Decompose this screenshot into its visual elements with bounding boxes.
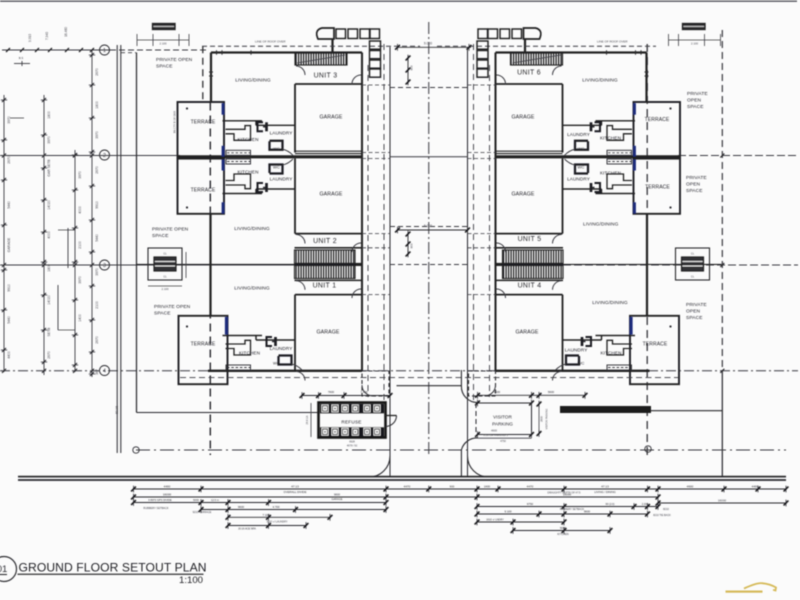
right unit2 door arc e [497,243,506,252]
parking bay left dashed [475,403,477,435]
svg-text:16.460: 16.460 [64,27,68,37]
base dim right tick 585 [583,392,588,399]
right paver col 1 [477,41,488,49]
west fence return [137,412,319,414]
right top cl tick 153 [704,34,706,46]
svg-text:SPACE: SPACE [686,188,703,194]
driveway vdim bot [407,232,409,256]
sdim row4L tick 386 [384,506,389,513]
left unit1 laundry west wall [255,336,257,341]
driveway group [180,42,678,478]
right west wall mid [646,214,648,316]
driveway cross dash 4 [390,264,468,266]
right unit2 kitchen top wall [596,193,636,195]
unit1 laundry appliance a [586,337,592,346]
dim slash at x4 y140 [2,138,6,142]
sdim row3R line [477,506,658,508]
svg-text:2.000: 2.000 [642,502,649,506]
svg-text:GARAGE: GARAGE [7,237,11,252]
svg-text:3970: 3970 [47,136,51,144]
right terrace1 dot [669,107,671,109]
sdim row1 tick 647.5 [645,486,650,493]
svg-text:9.000: 9.000 [424,224,432,228]
svg-text:3970: 3970 [7,116,11,124]
left paver col 2 [370,51,381,59]
svg-text:5000: 5000 [560,526,566,530]
svg-text:GARAGE: GARAGE [511,192,534,198]
sdim row2 tick 477 [475,494,480,501]
right unit3 stair diagonal [513,55,561,63]
svg-text:3970: 3970 [95,268,99,276]
sdim row3L tick 386 [384,499,389,506]
kerb flare east [468,456,489,477]
left terrace3 blue [225,317,228,335]
right unit1 kitchen top wall [596,335,636,337]
left unit2 door arc w [296,235,305,244]
svg-text:47.13: 47.13 [601,484,609,488]
unit3 wc walls [575,141,588,150]
svg-text:SPACE: SPACE [152,233,169,239]
right top cl bar split [684,25,705,27]
svg-text:4000: 4000 [78,206,82,214]
right terrace1 [634,102,681,158]
right porch wall [524,39,526,53]
svg-text:5600: 5600 [548,390,555,394]
svg-text:WC: WC [578,165,585,170]
unit3 kitchen counter [607,126,632,141]
svg-text:OVERALL DIVIDE: OVERALL DIVIDE [284,490,307,494]
dim tick at x92 y55 [89,54,95,56]
unit3 bench dash [227,152,250,154]
strip rung c [10,117,24,119]
svg-text:TERRACE: TERRACE [643,342,668,348]
logo swoosh [744,583,776,590]
east fence return [651,410,722,412]
left terrace1 blue N [222,103,225,115]
svg-text:2100: 2100 [78,241,82,249]
sdim row4Rb line [564,513,648,515]
unit1 wc walls [566,356,579,365]
svg-text:GAR SETB: GAR SETB [47,159,51,177]
left unit1 stairs flight [295,266,356,279]
right unit1 stairs flight [503,266,564,279]
sdim row3R tick 634 [632,503,637,510]
sdim row5L tick 268.5 [266,514,271,521]
sdim row2b line [658,502,786,504]
right top clothesline bar [683,24,706,30]
svg-text:LAUNDRY: LAUNDRY [567,132,590,137]
svg-text:TERRACE: TERRACE [645,117,670,123]
garage apron stub west y152.5 [362,152,390,154]
driveway dim bot tick e [465,227,470,234]
grid line 1 dash [110,49,209,51]
unit2 bench dash [608,161,631,163]
sdim row4R tick 539 [537,511,542,518]
dim slash at x44 y168 [42,166,46,170]
jamb L1 [216,50,218,54]
svg-text:4.700: 4.700 [273,505,280,509]
site boundary group [0,1,797,480]
refuse group [319,403,397,438]
left top cl tick 189 [188,34,190,46]
base dim left tick 318.5 [316,392,321,399]
right garage1 top wall [496,83,563,85]
left unit2 laundry west wall [255,189,257,194]
fence dash stub [121,52,136,54]
svg-text:GARAGE: GARAGE [316,330,339,336]
dim slash at x92 y352 [90,350,94,354]
svg-text:367: 367 [95,369,99,375]
svg-text:OPEN: OPEN [686,309,701,315]
refuse fence line east [397,385,462,387]
garage apron stub west y233.6 [362,233,390,235]
svg-text:TERRACE: TERRACE [191,188,216,194]
svg-text:9.000: 9.000 [424,42,432,46]
svg-text:-: - [0,576,3,585]
refuse bin top 6 [374,405,381,413]
right unit2 stairs flight [503,250,564,264]
sdim row6R tick 513 [511,527,516,534]
dim slash at x44 y232 [42,230,46,234]
svg-text:SPACE: SPACE [686,315,703,321]
svg-text:1:100: 1:100 [179,575,203,586]
garage apron stub west y158.5 [362,158,390,160]
visitor parking dim line [478,437,532,439]
dim slash at x75 y190 [73,188,77,192]
right unit3 laundry top wall [563,124,602,126]
kerb flare west [369,456,390,477]
sdim row6L tick 268.5 [266,522,271,529]
sdim row4R line [477,513,564,515]
right unit3 laundry west wall [601,121,603,126]
svg-text:LIVING / DINING: LIVING / DINING [594,490,615,494]
corner sub tick [21,61,23,66]
right unit2 door arc w [553,235,562,244]
svg-text:SPACE: SPACE [156,64,173,70]
sdim row6L line [228,525,306,527]
svg-text:5440: 5440 [95,234,99,242]
grid strip slash 44,370.8 [42,369,46,373]
dim tick at x75 y228 [72,227,78,229]
dim tick at x92 y286 [89,285,95,287]
svg-text:TERRACE: TERRACE [191,120,216,126]
svg-text:KITCHEN: KITCHEN [557,532,569,536]
left top cl tick 179 [178,34,180,46]
sdim row1 tick 477 [475,486,480,493]
svg-text:900: 900 [410,243,414,248]
grid1 strip slash x37 [35,48,39,52]
right unit2 laundry west wall [601,189,603,194]
left unit2 door arc e [352,243,361,252]
unit1 kitchen bench [607,365,632,370]
right paver curve [524,28,541,39]
east boundary solid [721,370,723,477]
unit1 laundry appliance b [274,337,277,346]
svg-text:9.910: 9.910 [28,34,32,42]
refuse bin bottom 2 [332,428,339,436]
sdim row1 line [134,488,787,490]
left paver curve [317,28,334,39]
dim tick at x92 y374 [89,373,95,375]
dim slash at x92 y252 [90,250,94,254]
svg-text:SETB: SETB [47,327,51,337]
dim tick at x75 y335 [72,334,78,336]
svg-text:7.100: 7.100 [263,513,270,517]
grid line 2 right ext [678,155,798,157]
svg-text:2600: 2600 [540,416,544,422]
svg-text:PRIVATE OPEN: PRIVATE OPEN [152,227,189,233]
left paver col 4 [370,69,381,77]
right terrace3 [630,316,679,384]
svg-text:1: 1 [103,48,106,54]
right terrace3 dot [669,325,671,327]
right south wall [496,370,650,372]
refuse top band [320,404,384,414]
svg-text:KITCHEN: KITCHEN [237,137,258,142]
parking bottom tick w [475,431,480,438]
strip vertical line D [91,50,93,377]
left paver row 4 [370,29,380,39]
dim slash at x92 y85 [90,83,94,87]
svg-text:GROUND FLOOR SETOUT PLAN: GROUND FLOOR SETOUT PLAN [19,561,207,575]
left unit3 stair diagonal [297,55,345,63]
sdim row1 tick 758 [756,486,761,493]
left garage1 west wall [294,84,296,153]
right paver row 4 [478,29,488,39]
svg-text:WC: WC [273,165,280,170]
unit3 kitchen counter [226,126,251,141]
svg-text:4600: 4600 [491,428,497,432]
left unit3 door arc w [296,66,305,75]
svg-text:4470: 4470 [527,485,534,489]
clotheslines group [137,24,721,292]
svg-text:1400: 1400 [78,314,82,322]
left top cl bar split [154,25,175,27]
left terrace1 dot [186,107,188,109]
right terrace2 [634,159,681,214]
sdim row4R tick 477 [475,511,480,518]
unit2 kitchen bench [226,159,251,164]
dim tick at x92 y252 [89,251,95,253]
svg-text:12.0 m: 12.0 m [211,498,219,502]
dim slash at x92 y220 [90,218,94,222]
svg-text:16000: 16000 [163,493,172,497]
dim tick at x44 y100 [41,99,47,101]
garage apron stub west y371 [362,370,390,372]
parking kerb line lower [460,450,462,477]
left garage1 top wall [295,83,362,85]
driveway edge west [389,47,391,477]
svg-text:KITCHEN: KITCHEN [600,136,621,141]
grid line 3 left ext [0,264,295,266]
svg-text:7600: 7600 [328,390,335,394]
grid group [0,45,798,376]
left unit3 stairs [295,53,347,65]
sdim row4R tick 564 [562,511,567,518]
west long dashed upper [202,46,204,102]
svg-text:VISITOR PARKING 5: VISITOR PARKING 5 [483,433,508,437]
dim slash at x44 y295 [42,293,46,297]
sdim row6R line [513,530,610,532]
left building walls group [136,39,389,396]
parking side tick s [537,430,542,437]
dim slash at x75 y228 [73,226,77,230]
right terrace2 dot [669,206,671,208]
sdim row5R tick 513 [511,519,516,526]
refuse bin bottom 1 [322,428,329,436]
svg-text:OPEN: OPEN [687,98,702,104]
grid line 2 left ext [0,155,180,157]
right unit3 door arc e [497,75,506,84]
logo bar [726,591,763,593]
left terrace1 [178,102,225,158]
roof dash left [202,45,420,47]
left unit2 kitchen top wall [223,193,263,195]
jamb L3 [221,50,223,54]
west fence line [136,53,138,413]
dim slash at x92 y55 [90,53,94,57]
refuse bottom band [320,427,384,437]
right party wall unit3 [496,155,681,158]
svg-text:9600: 9600 [584,510,591,514]
svg-text:CL: CL [691,275,695,279]
svg-text:LIVING/DINING: LIVING/DINING [234,226,270,232]
grid1 strip slash x22 [20,48,24,52]
driveway vdim top tick b [406,67,411,74]
sdim row2 tick 386 [384,494,389,501]
left unit3 laundry west wall [255,121,257,126]
svg-text:CL: CL [163,252,167,256]
sdim row5R tick 564 [562,519,567,526]
svg-text:PRIVATE OPEN: PRIVATE OPEN [154,304,191,310]
dim tick at x75 y300 [72,299,78,301]
title bubble divider [0,574,7,576]
svg-text:LIVING/DINING: LIVING/DINING [592,300,628,306]
dim slash at x44 y100 [42,98,46,102]
dim tick at x75 y262 [72,261,78,263]
svg-text:PRIVATE OPEN: PRIVATE OPEN [156,57,193,63]
driveway vdim bot tick c [406,251,411,258]
left margin dimension strip group [1,27,177,414]
sdim row5R line [477,521,564,523]
unit3 laundry appliance c [591,126,595,128]
dim tick at x44 y362 [41,361,47,363]
dim slash at x4 y180 [2,178,6,182]
sdim row2 tick 133.5 [131,494,136,501]
dim slash at x75 y262 [73,260,77,264]
refuse bin bottom 3 [342,428,349,436]
svg-text:2.100: 2.100 [162,287,169,291]
left west wall mid [209,214,211,316]
jamb east wall a [645,71,649,73]
right unit3 stairs [511,53,563,65]
driveway dashed ea [489,65,491,397]
visitor parking group [397,370,652,477]
sdim row4Rb tick 610 [608,511,613,518]
svg-text:9910: 9910 [7,284,11,292]
left party wall unit12 [295,263,363,266]
refuse bin top 4 [352,405,359,413]
svg-text:UNIT 2: UNIT 2 [313,238,337,245]
svg-text:29.6 EA: 29.6 EA [306,415,309,424]
driveway dim bot tick w [395,227,400,234]
grid line 3 right ext [563,264,798,266]
garage apron stub east y294.6 [468,294,496,296]
refuse bin top 2 [332,405,339,413]
driveway vdim top tick a [406,55,411,62]
right garage1 door line b [496,153,563,155]
sdim row1 tick 786 [784,486,789,493]
left stair top wall [295,247,363,249]
left west wall upper [210,53,212,103]
svg-text:8210: 8210 [663,507,669,511]
left garage3 top wall [295,294,362,296]
dim tick at x92 y186 [89,185,95,187]
right top cl tick 189 [668,34,670,46]
grid strip slash 4,370.8 [2,369,6,373]
left terrace3 [179,316,228,384]
dim tick at x92 y220 [89,219,95,221]
east retaining bar [560,406,651,413]
grid strip slash 92,155.5 [90,154,94,158]
dim slash at x4 y100 [2,98,6,102]
left top cl dim line [137,39,189,41]
dim slash at x75 y365 [73,363,77,367]
unit2 kitchen bench [607,159,632,164]
dim slash at x75 y335 [73,333,77,337]
svg-text:GARAGE: GARAGE [511,115,534,121]
dim tick at x75 y190 [72,189,78,191]
svg-text:1800: 1800 [47,111,51,119]
svg-text:2.100: 2.100 [691,42,698,46]
sdim row3R tick 658 [656,503,661,510]
west boundary line inner [120,45,122,453]
left top cl tick 153 [152,34,154,46]
refuse outer wall [319,403,386,438]
right unit1 door arc w [553,281,562,290]
svg-text:5440: 5440 [7,201,11,209]
left unit3 door arc e [352,75,361,84]
left party wall unit3 [177,155,362,158]
parking side dim line [538,403,540,435]
refuse bin bottom 5 [364,428,371,436]
right east wall [494,53,496,372]
left terrace1 blue S [222,146,225,157]
unit2 laundry appliance b [265,183,268,192]
sdim row5L line [228,516,330,518]
svg-text:4400: 4400 [7,351,11,359]
svg-text:7.000: 7.000 [361,390,368,394]
sdim row1 tick 724 [722,486,727,493]
svg-text:9600: 9600 [334,493,340,497]
sdim row3R tick 564 [562,503,567,510]
right rear porch arc [485,385,496,396]
dim tick at x44 y232 [41,231,47,233]
sdim row4Rb tick 647.5 [645,511,650,518]
dim tick at x4 y140 [1,139,7,141]
left garage2 door wall [295,233,362,235]
east boundary slash y155.5 [720,154,724,158]
left terrace2 dot [186,206,188,208]
svg-text:RUBBERY SETBACK: RUBBERY SETBACK [143,506,169,510]
left mid clothesline inner [154,257,176,271]
unit3 kitchen bench [607,150,632,155]
svg-text:REFUSE: REFUSE [341,420,361,425]
unit3 laundry appliance a [595,122,601,131]
title bubble [0,557,16,582]
grid bubble 4 [100,366,110,376]
sdim row2 line [134,496,659,498]
